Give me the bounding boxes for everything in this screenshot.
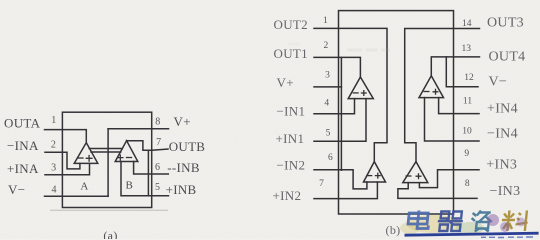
svg-text:V−: V− (489, 75, 508, 90)
wire pin3 +INA to A non-inverting input (45, 163, 90, 174)
wire pin5 +IN1 to op-amp 1 non-inverting input (314, 99, 366, 142)
svg-text:2: 2 (51, 139, 56, 150)
op-amp 1 minus input sign (353, 92, 359, 94)
watermark underline (405, 233, 539, 235)
svg-text:−IN1: −IN1 (277, 103, 306, 118)
wire pin10 -IN4 to op-amp 4 inverting input (425, 98, 480, 141)
svg-text:−INA: −INA (7, 138, 39, 153)
wire pin7 OUTB from op-amp B output (127, 141, 168, 151)
svg-text:--INB: --INB (167, 160, 200, 175)
svg-text:A: A (80, 181, 88, 193)
svg-text:+IN1: +IN1 (276, 131, 305, 146)
svg-text:3: 3 (51, 163, 56, 174)
svg-text:+INA: +INA (7, 161, 39, 176)
svg-text:2: 2 (324, 41, 329, 51)
op-amp A plus input sign (86, 155, 93, 162)
watermark char 器 (437, 212, 464, 232)
svg-text:5: 5 (326, 128, 331, 138)
svg-text:14: 14 (462, 19, 472, 29)
op-amp 2 plus input sign (375, 173, 381, 179)
svg-text:B: B (125, 180, 133, 192)
svg-text:1: 1 (323, 16, 328, 26)
op-amp A triangle (74, 143, 98, 164)
wire pin6 -IN2 to op-amp 2 inverting input (314, 170, 367, 189)
op-amp 4 triangle top-right (419, 76, 444, 98)
wire pin1 OUTA to op-amp A output (45, 130, 87, 143)
svg-text:+IN2: +IN2 (273, 188, 302, 203)
svg-text:−IN2: −IN2 (277, 157, 306, 172)
svg-text:+IN4: +IN4 (487, 102, 518, 117)
svg-text:11: 11 (463, 96, 472, 106)
wire pin5 +INB to B non-inverting input (121, 162, 169, 196)
svg-text:OUT3: OUT3 (487, 16, 524, 31)
watermark char 资 (470, 211, 493, 232)
wire pin11 +IN4 to op-amp 4 non-inverting input (439, 98, 479, 114)
svg-text:V+: V+ (174, 114, 191, 129)
wire bridge upper between A and B (89, 148, 122, 150)
op-amp 4 plus input sign (433, 89, 439, 95)
svg-text:8: 8 (155, 117, 160, 128)
wire pin4 -IN1 to op-amp 1 inverting input (314, 99, 355, 114)
op-amp 2 minus input sign (366, 175, 372, 177)
wire bridge lower between A and B (91, 151, 121, 153)
svg-text:5: 5 (155, 182, 160, 193)
svg-text:13: 13 (462, 44, 472, 54)
svg-text:3: 3 (325, 71, 330, 81)
op-amp A minus input sign (77, 157, 84, 159)
tiny blue marks under watermark (481, 236, 533, 239)
wire V+ rail vertical (340, 57, 342, 170)
watermark char 电 (408, 211, 430, 229)
op-amp 1 plus input sign (361, 90, 367, 96)
ghost bleed-through marks (288, 44, 390, 50)
svg-text:−IN4: −IN4 (487, 127, 518, 142)
wire pin8 -IN3 to op-amp 3 inverting input (398, 183, 477, 199)
watermark char 料 (501, 211, 529, 232)
svg-text:4: 4 (52, 185, 57, 196)
wire pin12 V- (446, 57, 478, 87)
IC package (b) outline (339, 11, 454, 214)
wire pin1 OUT2 to op-amp 2 output (314, 28, 387, 161)
svg-text:6: 6 (155, 162, 160, 173)
svg-text:OUT1: OUT1 (274, 46, 308, 61)
svg-text:1: 1 (51, 115, 56, 126)
op-amp B minus input sign (126, 157, 132, 159)
svg-text:10: 10 (462, 127, 472, 137)
op-amp 1 triangle top-left (348, 77, 373, 99)
wire pin2 -INA hook to A inverting input (45, 152, 80, 169)
scan artifact line under (a) (50, 209, 168, 211)
op-amp 3 triangle bottom-right (403, 162, 428, 183)
wire pin6 -INB to B inverting input (134, 162, 169, 175)
wire vertical right inner (147, 150, 149, 196)
svg-text:12: 12 (464, 73, 474, 83)
wire center vertical V+ (107, 129, 109, 197)
svg-text:V+: V+ (277, 75, 294, 90)
op-amp 2 triangle bottom-left (364, 162, 386, 182)
svg-text:7: 7 (156, 137, 161, 148)
svg-text:OUT2: OUT2 (274, 17, 308, 32)
svg-text:V−: V− (8, 182, 25, 197)
wire pin2 OUT1 to op-amp 1 output (314, 57, 360, 77)
svg-text:+IN3: +IN3 (486, 158, 517, 173)
svg-text:OUTA: OUTA (4, 115, 41, 130)
svg-text:+INB: +INB (166, 182, 197, 197)
wire pin13 OUT4 to op-amp 4 output (431, 57, 479, 76)
wire pin4 V- rail (45, 195, 109, 197)
op-amp B triangle (115, 141, 138, 162)
wire pin14 OUT3 to op-amp 3 output (405, 29, 480, 162)
svg-text:6: 6 (328, 153, 333, 163)
svg-text:(b): (b) (386, 223, 401, 237)
op-amp 4 minus input sign (424, 91, 430, 93)
op-amp B plus input sign (117, 154, 123, 160)
op-amp 3 plus input sign (416, 173, 422, 179)
watermark purple blobs (487, 214, 526, 232)
watermark backdrop blobs (400, 215, 484, 234)
wire pin8 V+ (108, 128, 168, 130)
wire pin3 V+ (314, 86, 341, 88)
IC package (a) outline (62, 112, 151, 207)
svg-text:OUTB: OUTB (169, 139, 206, 154)
svg-text:(a): (a) (103, 229, 117, 240)
wire pin9 +IN3 to op-amp 3 non-inverting input (419, 170, 479, 188)
svg-text:4: 4 (324, 98, 329, 108)
svg-text:8: 8 (465, 179, 470, 189)
svg-text:−IN3: −IN3 (490, 184, 521, 199)
svg-text:OUT4: OUT4 (489, 50, 526, 65)
wire pin7 +IN2 to op-amp 2 non-inverting input (314, 182, 377, 199)
svg-text:7: 7 (319, 179, 324, 189)
svg-text:9: 9 (464, 149, 469, 159)
op-amp 3 minus input sign (406, 175, 412, 177)
